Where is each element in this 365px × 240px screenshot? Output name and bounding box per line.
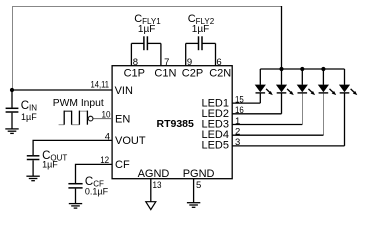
svg-text:LED5: LED5 (201, 140, 229, 152)
svg-text:1µF: 1µF (138, 24, 155, 35)
svg-text:C2N: C2N (209, 67, 231, 79)
svg-text:RT9385: RT9385 (157, 118, 195, 130)
svg-text:16: 16 (235, 105, 244, 116)
svg-text:10: 10 (102, 109, 111, 120)
svg-text:0.1µF: 0.1µF (85, 186, 109, 196)
svg-text:1: 1 (235, 116, 240, 127)
svg-text:4: 4 (105, 132, 110, 143)
svg-text:15: 15 (235, 95, 244, 106)
svg-text:AGND: AGND (138, 168, 170, 180)
svg-text:3: 3 (235, 137, 240, 148)
svg-text:13: 13 (153, 180, 162, 191)
svg-text:6: 6 (216, 57, 221, 68)
svg-text:14,11: 14,11 (91, 80, 110, 91)
svg-text:5: 5 (196, 180, 201, 191)
svg-text:VOUT: VOUT (115, 135, 146, 147)
svg-text:8: 8 (133, 57, 138, 68)
svg-text:1µF: 1µF (42, 160, 58, 170)
svg-text:7: 7 (164, 57, 169, 68)
svg-text:12: 12 (100, 155, 109, 166)
svg-text:C2P: C2P (182, 67, 203, 79)
svg-text:PGND: PGND (183, 168, 215, 180)
svg-text:1µF: 1µF (192, 24, 209, 35)
svg-text:C1P: C1P (124, 67, 145, 79)
svg-text:EN: EN (115, 114, 130, 126)
svg-text:PWM Input: PWM Input (53, 98, 104, 109)
svg-text:C1N: C1N (154, 67, 176, 79)
svg-text:VIN: VIN (115, 85, 133, 97)
svg-text:CF: CF (115, 159, 130, 171)
svg-text:9: 9 (187, 57, 192, 68)
svg-text:1µF: 1µF (21, 112, 37, 122)
svg-text:2: 2 (235, 127, 240, 138)
